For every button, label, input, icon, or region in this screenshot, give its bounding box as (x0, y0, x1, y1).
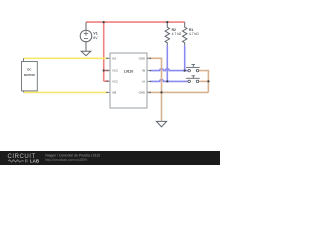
svg-text:imagen / Conexion de Prueba L9: imagen / Conexion de Prueba L9110 (45, 153, 100, 157)
svg-text:GND: GND (139, 91, 145, 95)
wire: brown from SW1 right terminal down (199, 71, 209, 93)
svg-text:IA: IA (142, 80, 145, 84)
wire: blue R1 vertical to IB (184, 45, 186, 70)
svg-text:OA: OA (112, 56, 116, 60)
wire: brown GND from IC top-right pin down to ground (147, 58, 162, 121)
pin labels (112, 56, 145, 94)
svg-text:4.7 kΩ: 4.7 kΩ (172, 32, 182, 36)
pin stubs (107, 58, 151, 92)
wire: +8V red rail from V1 top to R1 top (86, 21, 185, 23)
IC U1 L9110 box (110, 53, 147, 108)
pin connection nubs (106, 58, 151, 94)
svg-text:VCC: VCC (112, 69, 118, 73)
svg-text:8V: 8V (93, 36, 98, 40)
wire: red stub to VCC pin2 (104, 80, 109, 82)
resistor R1 (183, 22, 187, 45)
svg-text:L9110: L9110 (124, 69, 134, 73)
svg-text:MOTOR: MOTOR (24, 73, 36, 77)
wire: yellow motor top to OA (24, 57, 108, 59)
svg-text:http://circuitlab.com/c/s2899: http://circuitlab.com/c/s2899 (45, 158, 87, 162)
resistor R2 (165, 22, 169, 45)
wire: blue R2 vertical to IA (166, 45, 168, 81)
wire: yellow motor bottom to OB (24, 91, 108, 93)
CircuitLab logo (8, 154, 40, 163)
wire: red vertical drop to VCC pins (103, 22, 105, 81)
svg-text:IB: IB (142, 69, 145, 73)
wire: red stub to VCC pin1 (104, 70, 109, 72)
ground right (156, 121, 166, 127)
voltage source V1 (80, 22, 92, 42)
motor M1 (22, 58, 38, 92)
svg-text:OB: OB (112, 91, 116, 95)
wire: brown from SW2 right terminal (199, 80, 209, 82)
ground below V1 (81, 42, 91, 56)
wire: brown GND bottom horizontal (147, 91, 208, 93)
svg-text:LAB: LAB (30, 159, 39, 164)
footer bar (0, 151, 220, 165)
wire: blue IB from IC pin to switch SW1, humps over x=161.5 and x=167.3 (151, 69, 188, 71)
switch SW1 (push button) (186, 65, 200, 72)
switch SW2 (push button) (186, 76, 200, 83)
node junction dots (103, 21, 210, 94)
svg-text:VCC: VCC (112, 79, 118, 83)
svg-text:GND: GND (139, 56, 145, 60)
svg-text:4.7 kΩ: 4.7 kΩ (189, 32, 199, 36)
wire: blue IA from IC pin to switch SW2, hump over x=161.5 (151, 79, 188, 81)
